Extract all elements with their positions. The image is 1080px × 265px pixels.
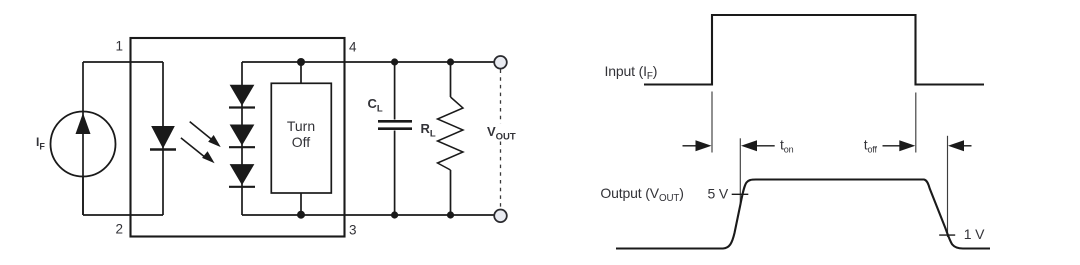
svg-text:2: 2	[116, 222, 124, 237]
svg-text:1: 1	[116, 39, 124, 54]
svg-text:Turn: Turn	[287, 118, 315, 134]
svg-text:1 V: 1 V	[964, 226, 985, 242]
svg-text:3: 3	[349, 223, 357, 238]
svg-text:5 V: 5 V	[708, 186, 729, 202]
svg-text:4: 4	[349, 40, 357, 55]
svg-text:Off: Off	[292, 134, 311, 150]
